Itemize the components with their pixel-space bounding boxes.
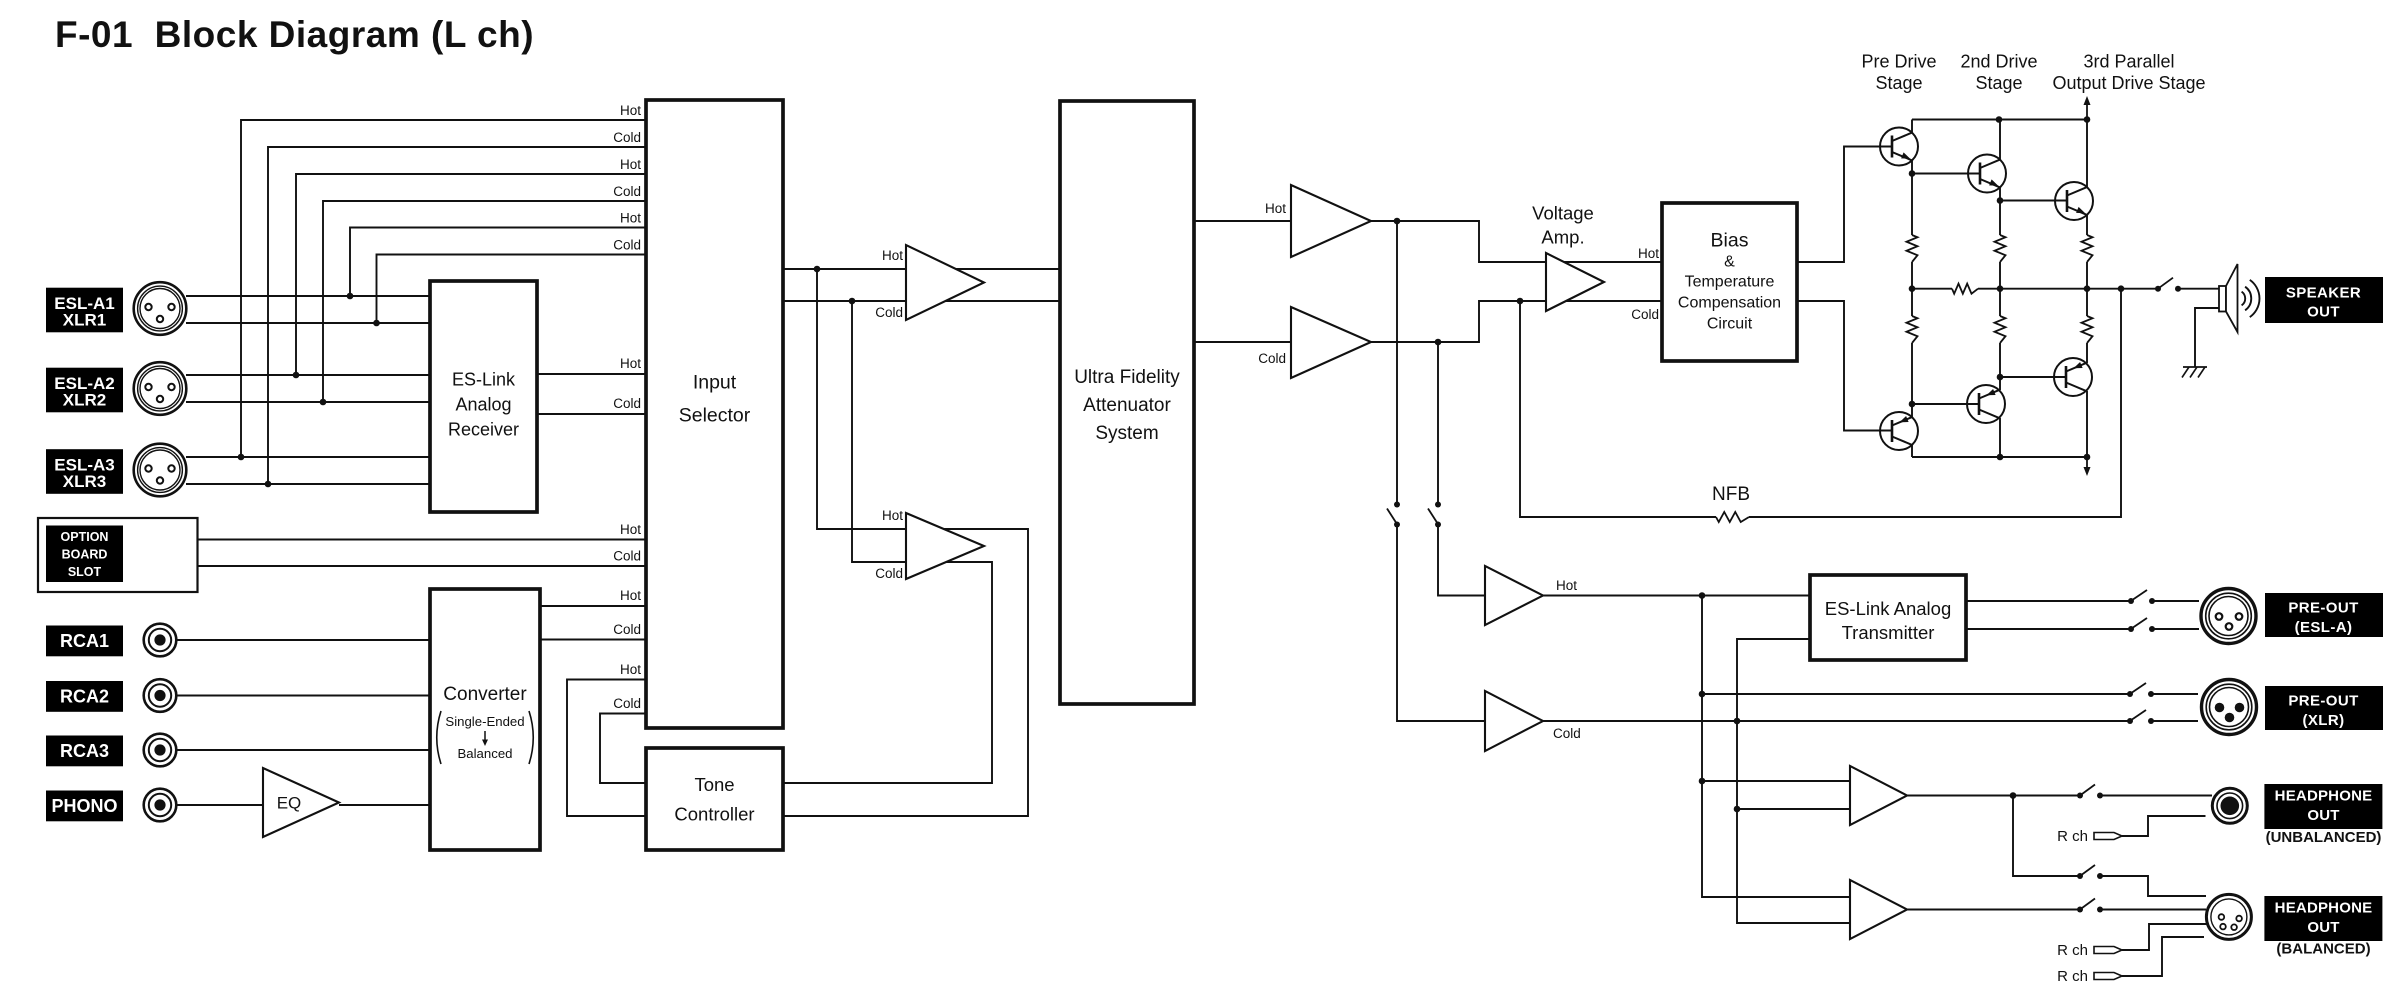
switch pre-out ESL-A 2 [2128, 618, 2155, 632]
wire Q3 emitter [2086, 215, 2088, 235]
svg-text:Stage: Stage [1975, 73, 2022, 93]
svg-text:PRE-OUT: PRE-OUT [2288, 600, 2358, 617]
block ES-Link Analog Transmitter [1810, 575, 1966, 660]
wire RCA1 [176, 639, 431, 641]
wire hot feed down [1396, 221, 1398, 505]
label Cold receiver [613, 396, 641, 411]
switch pre-out ESL-A 1 [2128, 590, 2155, 604]
wire hot feed down 2 [1397, 525, 1485, 722]
wire XLR1 hot [186, 295, 430, 297]
label Hot selector-in 5 [620, 211, 641, 226]
wire hot to transmitter [1543, 592, 1810, 599]
wire branch to selector Hot 3 [293, 174, 646, 378]
svg-text:OUT: OUT [2307, 304, 2340, 321]
svg-text:PRE-OUT: PRE-OUT [2288, 693, 2358, 710]
svg-text:Hot: Hot [620, 522, 641, 537]
transistor Q5 [1967, 385, 2005, 423]
svg-text:ES-Link Analog: ES-Link Analog [1825, 598, 1952, 619]
wire R ch unbal [2122, 816, 2206, 836]
connector RCA1 [144, 624, 177, 657]
connector HEADPHONE OUT BALANCED [2206, 894, 2251, 939]
power arrow down [2084, 457, 2091, 476]
block ES-Link Analog Receiver [430, 281, 537, 512]
svg-text:OUT: OUT [2307, 807, 2339, 824]
svg-text:Attenuator: Attenuator [1083, 395, 1171, 416]
wire pre-out xlr cold [1737, 720, 2130, 722]
label Hot amp2 [882, 508, 903, 523]
transistor Q4 [2054, 358, 2092, 396]
wire Q3 collector [2086, 120, 2088, 188]
svg-text:Tone: Tone [694, 774, 734, 795]
svg-text:F-01 Block Diagram (L ch): F-01 Block Diagram (L ch) [55, 14, 534, 55]
label Hot amp1 [882, 248, 903, 263]
wire transmitter out 1b [2152, 600, 2199, 602]
svg-text:(UNBALANCED): (UNBALANCED) [2266, 829, 2382, 846]
label Hot preamp [1556, 578, 1577, 593]
title [55, 14, 534, 55]
label Hot selector-in 3 [620, 157, 641, 172]
amplifier headphone balanced [1850, 880, 1907, 939]
wire Q1 emitter [1909, 160, 1916, 235]
label Cold selector-in 2 [613, 130, 641, 145]
connector HEADPHONE OUT UNBALANCED [2212, 788, 2247, 823]
wire bal out [1907, 909, 2080, 911]
label R ch unbal [2057, 828, 2088, 845]
amplifier voltage amp [1546, 253, 1604, 311]
wire selector cold out [783, 298, 1060, 305]
label Hot option [620, 522, 641, 537]
svg-text:XLR1: XLR1 [63, 311, 106, 330]
transistor Q1 [1880, 128, 1918, 166]
wire Q6 emitter [1909, 343, 1916, 417]
wire cold riser to transmitter [1737, 639, 1810, 721]
wire tone cold return [600, 714, 646, 784]
wire transmitter out 2b [2152, 628, 2199, 630]
block Ultra Fidelity Attenuator System [1060, 101, 1194, 704]
svg-text:System: System [1095, 423, 1158, 444]
label 2nd Drive Stage [1960, 52, 2037, 94]
wire Q6 collector [1911, 445, 1913, 457]
svg-text:Hot: Hot [620, 211, 641, 226]
svg-text:Transmitter: Transmitter [1842, 622, 1935, 643]
svg-text:Temperature: Temperature [1685, 274, 1775, 291]
resistor R4 [1907, 316, 1918, 343]
wire bal feed [2013, 796, 2080, 877]
resistor R2 [1995, 235, 2006, 262]
wire option cold [198, 565, 647, 567]
wire top rail [1912, 116, 2090, 123]
resistor R5 [1995, 316, 2006, 343]
resistor R3 [2082, 235, 2093, 262]
svg-text:Hot: Hot [620, 157, 641, 172]
svg-text:R ch: R ch [2057, 968, 2088, 985]
wire branch to selector Cold 6 [373, 255, 646, 327]
wire Q1-Q2 base [1912, 173, 1980, 175]
sound arcs [2242, 280, 2260, 317]
wire converter hot out [540, 605, 646, 607]
wire PHONO to EQ [176, 804, 264, 806]
wire bal feed b [2100, 876, 2206, 896]
wire bias cold to predrive [1797, 301, 1892, 431]
svg-text:SLOT: SLOT [68, 565, 102, 579]
plug R ch unbal [2094, 833, 2122, 840]
wire cold bus down [1734, 721, 1850, 923]
svg-text:OPTION: OPTION [61, 530, 109, 544]
svg-text:Hot: Hot [1556, 578, 1577, 593]
label RCA1 [46, 626, 123, 657]
svg-text:XLR2: XLR2 [63, 391, 106, 410]
label Voltage Amp [1532, 203, 1594, 248]
svg-text:Cold: Cold [1258, 351, 1286, 366]
svg-text:Controller: Controller [674, 804, 754, 825]
amplifier buffer B [906, 513, 984, 579]
label R ch bal 2 [2057, 968, 2088, 985]
svg-text:Cold: Cold [613, 184, 641, 199]
svg-text:Cold: Cold [613, 696, 641, 711]
wire bal amp in2 [1737, 922, 1850, 924]
svg-text:Hot: Hot [620, 103, 641, 118]
wire Q4 emitter [2086, 343, 2088, 363]
wire cold to voltage amp [1371, 298, 1662, 346]
block OPTION BOARD SLOT [38, 518, 198, 592]
svg-text:(XLR): (XLR) [2303, 712, 2345, 729]
svg-text:Single-Ended: Single-Ended [445, 714, 524, 729]
speaker symbol [2219, 264, 2238, 332]
wire unbal out b [2100, 795, 2212, 797]
connector PRE-OUT XLR [2202, 680, 2257, 735]
wire R6 upper [2086, 289, 2088, 316]
amplifier hot drive [1291, 185, 1371, 257]
svg-text:OUT: OUT [2307, 919, 2339, 936]
svg-text:XLR3: XLR3 [63, 472, 106, 491]
svg-text:(ESL-A): (ESL-A) [2295, 619, 2353, 636]
wire Q6-Q5 base [1912, 403, 1979, 405]
connector XLR2 [134, 362, 187, 415]
wire bias hot to predrive [1797, 147, 1892, 263]
svg-text:RCA2: RCA2 [60, 686, 109, 706]
svg-text:Bias: Bias [1711, 230, 1749, 252]
svg-text:Hot: Hot [882, 248, 903, 263]
svg-text:RCA1: RCA1 [60, 631, 109, 651]
block Tone Controller [646, 748, 783, 850]
svg-text:R ch: R ch [2057, 942, 2088, 959]
svg-text:Cold: Cold [875, 566, 903, 581]
wire receiver cold out [537, 413, 646, 415]
plug R ch bal 1 [2094, 947, 2122, 954]
wire pre-out xlr hot [1702, 693, 2130, 695]
svg-text:Amp.: Amp. [1541, 227, 1584, 248]
svg-text:Output Drive Stage: Output Drive Stage [2052, 73, 2205, 93]
wire XLR2 cold [186, 401, 430, 403]
connector XLR1 [134, 282, 187, 335]
wire R3 lower [2086, 262, 2088, 289]
label RCA2 [46, 681, 123, 712]
svg-text:Compensation: Compensation [1678, 295, 1781, 312]
svg-text:2nd Drive: 2nd Drive [1960, 52, 2037, 72]
svg-text:HEADPHONE: HEADPHONE [2275, 788, 2373, 805]
svg-text:RCA3: RCA3 [60, 741, 109, 761]
svg-text:R ch: R ch [2057, 828, 2088, 845]
svg-text:ES-Link: ES-Link [452, 370, 516, 390]
svg-text:Converter: Converter [443, 684, 527, 705]
connector PRE-OUT ESL-A [2201, 589, 2256, 644]
transistor Q2 [1968, 155, 2006, 193]
wire branch to selector Cold 4 [320, 201, 646, 405]
wire Q2-Q3 base [2000, 200, 2067, 202]
label Hot tone [620, 662, 641, 677]
svg-text:Cold: Cold [1631, 307, 1659, 322]
wire R ch bal 2 [2122, 937, 2204, 976]
wire NFB left [1520, 301, 1716, 517]
svg-text:3rd Parallel: 3rd Parallel [2083, 52, 2174, 72]
svg-text:Receiver: Receiver [448, 420, 519, 440]
wire R1 lower [1911, 262, 1913, 289]
transistor Q6 [1880, 412, 1918, 450]
svg-text:Analog: Analog [455, 395, 511, 415]
label Hot amp3 [1265, 201, 1286, 216]
power arrow up [2084, 96, 2091, 120]
wire hot bus down [1699, 596, 1850, 898]
wire RCA3 [176, 749, 431, 751]
svg-text:NFB: NFB [1712, 484, 1750, 505]
connector PHONO [144, 789, 177, 822]
wire R5 upper [1999, 289, 2001, 316]
label PRE-OUT (ESL-A) [2265, 593, 2383, 637]
svg-text:PHONO: PHONO [51, 796, 117, 816]
wire XLR3 hot [186, 456, 430, 458]
label R ch bal 1 [2057, 942, 2088, 959]
wire Q2 emitter [1997, 187, 2004, 235]
svg-text:Hot: Hot [1265, 201, 1286, 216]
label SPEAKER OUT [2265, 277, 2383, 323]
svg-text:Voltage: Voltage [1532, 203, 1594, 224]
label Cold option [613, 549, 641, 564]
label Hot receiver [620, 356, 641, 371]
wire speaker ground tap [2195, 308, 2219, 367]
block Converter [430, 589, 540, 850]
wire NFB right [1749, 289, 2121, 517]
wire unbal out [1907, 792, 2080, 799]
label HEADPHONE OUT BALANCED [2264, 896, 2382, 958]
switch headphone bal L [2077, 865, 2103, 879]
wire tone hot return [567, 680, 646, 817]
wire unbal amp in1 [1702, 780, 1850, 782]
wire branch to selector Hot 1 [238, 120, 646, 460]
resistor R1 [1907, 235, 1918, 262]
label Hot selector-in 1 [620, 103, 641, 118]
label PRE-OUT (XLR) [2265, 686, 2383, 730]
wire cold feed down [1437, 342, 1439, 505]
label HEADPHONE OUT UNBALANCED [2264, 784, 2382, 846]
wire amp2 hot feed [783, 269, 1028, 816]
label ESL-A1 XLR1 [46, 288, 123, 333]
svg-text:(BALANCED): (BALANCED) [2276, 941, 2370, 958]
label Cold converter [613, 622, 641, 637]
block Bias and Temperature Compensation Circuit [1662, 203, 1797, 361]
label Cold selector-in 6 [613, 238, 641, 253]
svg-text:HEADPHONE: HEADPHONE [2275, 900, 2373, 917]
label PHONO [46, 791, 123, 822]
svg-text:Circuit: Circuit [1707, 316, 1753, 333]
wire hot to voltage amp [1371, 218, 1662, 262]
wire pre-out xlr hot b [2151, 693, 2198, 695]
switch cold feed [1428, 502, 1441, 528]
label 3rd Parallel Output Drive Stage [2052, 52, 2205, 94]
amplifier cold drive [1291, 307, 1371, 378]
amplifier pre-out cold [1485, 691, 1543, 751]
svg-text:EQ: EQ [277, 794, 302, 813]
label Cold selector-in 4 [613, 184, 641, 199]
wire mid rail right [1978, 285, 2158, 292]
connector RCA3 [144, 734, 177, 767]
svg-text:Hot: Hot [620, 588, 641, 603]
connector RCA2 [144, 679, 177, 712]
wire cold out [1543, 718, 1740, 725]
svg-text:Cold: Cold [875, 305, 903, 320]
amplifier pre-out hot [1485, 566, 1543, 625]
wire selector hot out [783, 266, 1060, 273]
wire bal amp in1 [1702, 896, 1850, 898]
svg-text:Hot: Hot [882, 508, 903, 523]
transistor Q3 [2055, 182, 2093, 220]
switch pre-out XLR 1 [2127, 683, 2154, 697]
wire transmitter out 2 [1966, 628, 2131, 630]
wire attenuator hot out [1194, 220, 1291, 222]
block Input Selector [646, 100, 783, 728]
label Cold amp1 [875, 305, 903, 320]
svg-text:Stage: Stage [1875, 73, 1922, 93]
svg-text:Cold: Cold [613, 130, 641, 145]
wire to speaker [2178, 288, 2219, 290]
label Cold amp4 [1258, 351, 1286, 366]
label NFB [1712, 484, 1750, 505]
switch headphone unbal [2077, 785, 2103, 799]
wire attenuator cold out [1194, 341, 1291, 343]
wire Q5 emitter [1997, 343, 2004, 390]
amplifier EQ [263, 768, 339, 837]
svg-text:Hot: Hot [620, 356, 641, 371]
label Cold preamp [1553, 726, 1581, 741]
svg-text:Pre Drive: Pre Drive [1861, 52, 1936, 72]
label Cold bias-in [1631, 307, 1659, 322]
wire R2 lower [1999, 262, 2001, 289]
wire option hot [198, 539, 647, 541]
wire amp2 cold feed [783, 301, 992, 783]
svg-text:Hot: Hot [620, 662, 641, 677]
wire Q2 collector [1999, 120, 2001, 160]
wire EQ to converter [339, 804, 430, 806]
svg-text:Selector: Selector [679, 405, 751, 427]
amplifier headphone unbalanced [1850, 766, 1907, 825]
svg-text:&: & [1724, 254, 1735, 271]
svg-text:Cold: Cold [1553, 726, 1581, 741]
switch pre-out XLR 2 [2127, 710, 2154, 724]
wire mid rail left [1909, 285, 1952, 292]
wire cold feed down 2 [1438, 525, 1485, 596]
ground [2182, 367, 2207, 378]
wire unbal amp in2 [1737, 808, 1850, 810]
wire R ch bal 1 [2122, 924, 2207, 950]
resistor R7 mid [1952, 284, 1978, 294]
label RCA3 [46, 736, 123, 767]
svg-text:BOARD: BOARD [62, 548, 108, 562]
wire R4 upper [1911, 289, 1913, 316]
wire converter cold out [540, 639, 646, 641]
wire receiver hot out [537, 373, 646, 375]
wire XLR2 hot [186, 374, 430, 376]
label Cold amp2 [875, 566, 903, 581]
wire transmitter out 1 [1966, 600, 2131, 602]
label Hot converter [620, 588, 641, 603]
svg-text:Cold: Cold [613, 396, 641, 411]
svg-text:Cold: Cold [613, 549, 641, 564]
label Hot bias-in [1638, 246, 1659, 261]
resistor R6 [2082, 316, 2093, 343]
wire branch to selector Hot 5 [347, 228, 646, 300]
svg-text:Balanced: Balanced [458, 746, 513, 761]
switch hot feed [1387, 502, 1400, 528]
label ESL-A3 XLR3 [46, 449, 123, 494]
wire pre-out xlr cold b [2151, 720, 2198, 722]
wire Q4 collector [2086, 391, 2088, 457]
svg-text:SPEAKER: SPEAKER [2286, 285, 2361, 302]
wire Q1 collector [1911, 120, 1913, 133]
label ESL-A2 XLR2 [46, 368, 123, 413]
wire bottom rail [1912, 454, 2090, 461]
svg-text:Cold: Cold [613, 238, 641, 253]
switch headphone bal out [2077, 899, 2103, 913]
wire XLR1 cold [186, 322, 430, 324]
wire XLR3 cold [186, 483, 430, 485]
amplifier buffer A [906, 245, 984, 320]
wire bal out b [2100, 909, 2206, 911]
svg-text:Input: Input [693, 372, 737, 394]
svg-text:Cold: Cold [613, 622, 641, 637]
plug R ch bal 2 [2094, 973, 2122, 980]
svg-text:Hot: Hot [1638, 246, 1659, 261]
wire branch to selector Cold 2 [265, 147, 646, 487]
wire Q5 collector [1999, 418, 2001, 457]
svg-text:Ultra Fidelity: Ultra Fidelity [1074, 367, 1180, 388]
connector XLR3 [134, 444, 187, 497]
resistor NFB [1716, 512, 1749, 522]
switch speaker [2155, 278, 2181, 292]
label Pre Drive Stage [1861, 52, 1936, 94]
label Cold tone [613, 696, 641, 711]
wire Q5-Q4 base [2000, 376, 2066, 378]
wire RCA2 [176, 695, 431, 697]
